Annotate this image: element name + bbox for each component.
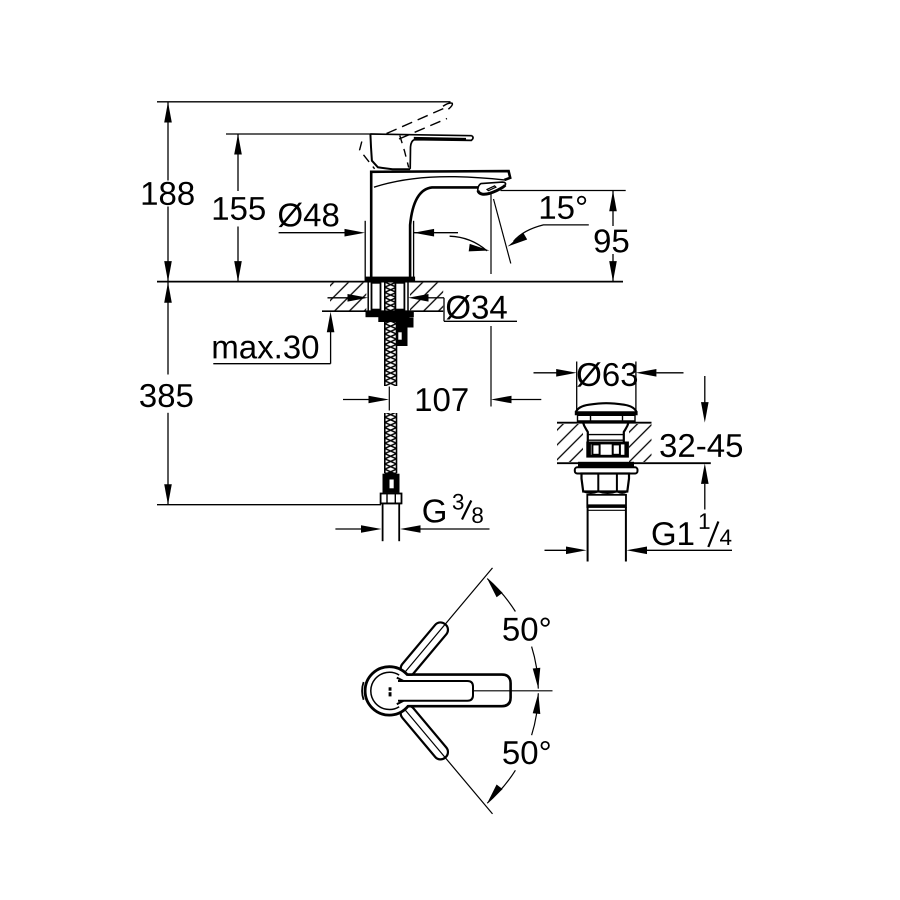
drain neck (583, 422, 588, 442)
reference line deck top surface (157, 281, 623, 283)
drain washer (575, 467, 638, 473)
drain tailpipe (587, 507, 589, 562)
top view lever neck ticks (397, 678, 404, 681)
dimension 95 text (595, 229, 629, 252)
dimension Ø48 right arrow (414, 229, 435, 237)
dimension 385 line (167, 282, 169, 374)
dimension Ø48 text (279, 203, 339, 227)
hose center tick (388, 387, 390, 411)
faucet body shading curve (374, 177, 504, 188)
reference line hose end (385 bottom) (157, 504, 381, 506)
top view 50deg construction line upper (405, 568, 493, 672)
top view lever lower 50deg position (398, 620, 451, 679)
spout aerator (478, 182, 506, 194)
lever top shadow line (414, 138, 466, 139)
drain slot window right (613, 444, 620, 454)
raised lever dashed rear edge (360, 142, 375, 169)
lever tip and underside (410, 136, 473, 169)
water stream vertical line (490, 194, 492, 274)
top view logo mark (389, 687, 392, 690)
15 degree leader (514, 225, 589, 242)
reference line top of closed lever (226, 133, 371, 135)
drain deck bottom line (557, 462, 711, 464)
dimension 95 line (612, 191, 614, 226)
lock nut body (379, 317, 409, 322)
lock nut flange (366, 311, 413, 317)
reference line top of raised lever (157, 101, 451, 103)
dimension G3/8 left arrow (335, 528, 361, 530)
dimension 50deg text lower (503, 741, 550, 764)
drain nut collar (587, 495, 626, 507)
dimension 15 text (541, 196, 586, 219)
raised lever dashed lower edge (387, 108, 446, 134)
dimension Ø48 leader (279, 232, 346, 234)
top view lever upper 50deg position (398, 703, 451, 762)
dimension Ø34 right arrow (408, 294, 429, 302)
hose G3/8 nipple (382, 503, 384, 541)
deck hatching right (410, 283, 443, 311)
raised lever tip (443, 103, 452, 109)
dimension Ø63 left arrow (534, 372, 557, 374)
hose end fitting (383, 474, 399, 492)
extension line Ø48 right (413, 221, 415, 282)
dimension 50deg arc upper (487, 579, 515, 612)
top view spout tip arc (362, 682, 363, 700)
dimension G1-1/4 left arrow (545, 549, 567, 551)
dimension Ø34 text (447, 295, 507, 319)
top view center line (474, 690, 553, 692)
drain cap skirt (578, 415, 636, 421)
dimension max.30 leader (213, 363, 330, 365)
dimension 50deg arc lower (487, 770, 515, 803)
dimension 188 line (167, 102, 169, 181)
dimension Ø63 right arrow (636, 369, 657, 377)
dimension G1-1/4 text (653, 522, 694, 545)
hose nut (381, 494, 402, 504)
drain slot window left (592, 444, 599, 454)
drain cap base (575, 411, 638, 415)
top view faucet body inner circle (371, 672, 399, 709)
dimension 155 text (214, 197, 265, 220)
15 degree arc (450, 236, 487, 251)
top view lever inner face (398, 681, 473, 701)
drain hex nut (582, 474, 630, 492)
dimension 107 text (417, 388, 468, 411)
deck hatching left (330, 283, 366, 311)
dimension 107 right arrow (491, 396, 512, 404)
supply pipe sleeve left (372, 283, 381, 310)
spout aerator face (487, 186, 496, 191)
dimension G3/8 text (423, 499, 445, 522)
drain slot section frame (586, 442, 629, 458)
dimension G1-1/4 right arrow (627, 547, 648, 555)
pull rod fitting (397, 318, 414, 346)
drain deck hatching right (629, 424, 652, 462)
dimension 385 text (140, 384, 192, 407)
top view 50deg construction line lower (405, 710, 493, 814)
drain seal band (579, 462, 634, 467)
dimension 32-45 text (660, 434, 742, 457)
dimension 50deg text upper (503, 618, 550, 641)
reference line spout outlet level (501, 190, 626, 192)
faucet body outline (371, 171, 510, 277)
drain slot section interior (591, 444, 625, 454)
dimension Ø34 left arrow (328, 297, 349, 299)
water stream 15deg line (494, 199, 511, 264)
extension line Ø48 left (364, 221, 366, 282)
hose braided lower (385, 413, 397, 473)
dimension 95 arrows (609, 191, 617, 212)
dimension max.30 text (214, 335, 319, 358)
deck hole edges (367, 282, 369, 312)
dimension 32-45 line upper (704, 376, 706, 403)
dimension G3/8 right arrow (400, 525, 421, 533)
top view faucet body outer circle (365, 667, 413, 715)
dimension 188 text (143, 182, 194, 205)
drain cap dome (576, 403, 637, 412)
dimension 107 left arrow (343, 399, 369, 401)
faucet base plate (366, 277, 415, 282)
dimension 155 line (237, 134, 239, 191)
dimension 385 arrows (164, 282, 172, 303)
top view lever fill (402, 676, 509, 705)
top view lever outline (408, 675, 511, 707)
dimension 32-45 line lower (701, 463, 709, 484)
raised lever dashed upper edge (399, 119, 447, 140)
mounting stud braided upper (385, 282, 397, 386)
deck bottom line (322, 310, 443, 312)
drain deck hatching left (557, 424, 583, 462)
dimension 155 arrows (234, 134, 242, 155)
lever top edge (370, 134, 472, 136)
dimension Ø34 flag (443, 298, 445, 322)
extension line Ø63 right (635, 362, 637, 412)
supply pipe sleeve right (395, 283, 404, 310)
dimension 188 arrows (164, 102, 172, 123)
drain deck top line (557, 422, 652, 424)
raised lever dashed front facet (400, 136, 409, 168)
dimension Ø63 text (577, 362, 637, 386)
drain neck grooves (588, 434, 624, 436)
extension line Ø63 left (576, 362, 578, 412)
lever base outline (370, 134, 410, 169)
